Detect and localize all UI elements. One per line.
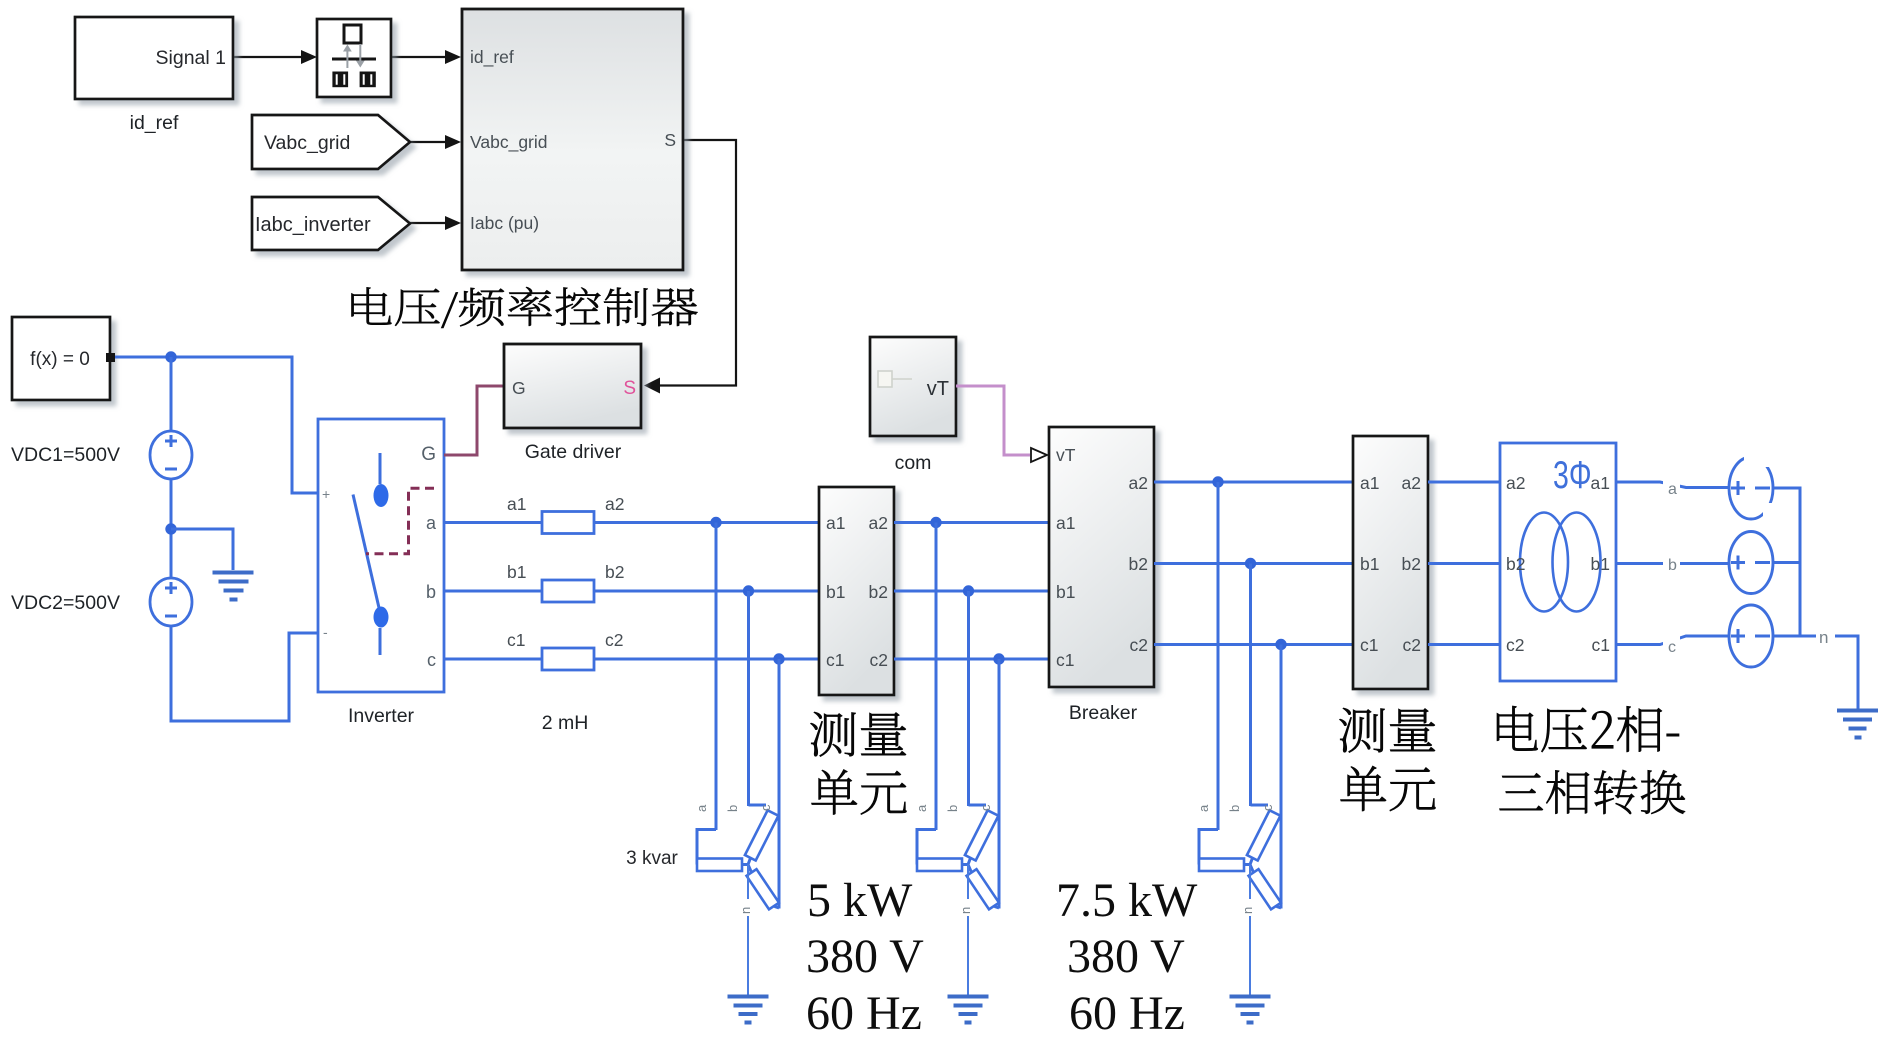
svg-text:a1: a1 <box>1056 513 1075 533</box>
junction dc bus top <box>165 351 176 362</box>
svg-text:G: G <box>512 378 526 398</box>
svg-text:Signal 1: Signal 1 <box>156 47 226 69</box>
svg-text:n: n <box>1819 628 1828 647</box>
inductor phase c <box>542 648 594 670</box>
junction load1 phase c <box>773 653 784 664</box>
svg-text:Gate driver: Gate driver <box>525 441 622 463</box>
wire VDC1 to VDC2 <box>170 479 173 578</box>
svg-text:a1: a1 <box>1591 473 1610 493</box>
svg-text:VDC1=500V: VDC1=500V <box>11 444 120 466</box>
svg-text:a2: a2 <box>1402 473 1421 493</box>
wire transformer c1 to source c <box>1616 636 1729 645</box>
source c <box>1729 605 1773 667</box>
wire to VDC1 <box>170 357 173 431</box>
svg-text:2 mH: 2 mH <box>542 712 589 734</box>
svg-text:a: a <box>426 513 437 533</box>
svg-text:vT: vT <box>1056 445 1076 465</box>
svg-text:Vabc_grid: Vabc_grid <box>470 132 548 153</box>
block inverter <box>318 419 444 692</box>
block com <box>870 337 956 436</box>
svg-text:c2: c2 <box>1130 635 1148 655</box>
svg-text:id_ref: id_ref <box>470 47 514 68</box>
tag Vabc_grid <box>252 115 410 169</box>
wire f(x) to inverter plus <box>115 357 318 493</box>
wire phase c breaker to meas2 <box>1154 643 1353 646</box>
wire rate transition to controller id_ref <box>391 56 447 58</box>
svg-text:id_ref: id_ref <box>130 112 179 134</box>
block measurement unit 1 <box>819 487 894 695</box>
ground right <box>1837 711 1878 738</box>
svg-text:b: b <box>1668 557 1677 574</box>
svg-text:c1: c1 <box>826 650 844 670</box>
wire inverter G to gate driver (mauve) <box>444 386 504 455</box>
wire transformer a1 to source a <box>1616 482 1729 488</box>
source a <box>1729 457 1773 519</box>
tag Iabc_inverter <box>252 197 410 250</box>
load2 (5 kW) icon <box>914 804 999 1023</box>
label 电压2相-三相转换 <box>1497 706 1685 814</box>
svg-text:c2: c2 <box>1403 635 1421 655</box>
inductor phase a <box>542 512 594 534</box>
svg-text:G: G <box>421 444 436 465</box>
wire VDC2 to inverter minus <box>171 626 318 721</box>
svg-text:c1: c1 <box>1360 635 1378 655</box>
label 测量单元 1 <box>810 712 906 814</box>
svg-text:Inverter: Inverter <box>348 705 415 727</box>
ground left <box>213 573 254 600</box>
svg-text:Iabc_inverter: Iabc_inverter <box>255 214 371 236</box>
inverter gate dashed bracket <box>366 488 434 554</box>
svg-text:b2: b2 <box>605 562 624 582</box>
svg-text:a2: a2 <box>1506 473 1525 493</box>
svg-text:c1: c1 <box>1056 650 1074 670</box>
wire phase a inverter to meas1 <box>444 521 819 524</box>
svg-text:com: com <box>895 452 932 474</box>
svg-text:c1: c1 <box>507 630 525 650</box>
svg-text:c2: c2 <box>1506 635 1524 655</box>
svg-text:Vabc_grid: Vabc_grid <box>264 132 350 154</box>
node n <box>1816 626 1832 644</box>
wire com vT to breaker (violet) <box>956 386 1030 455</box>
wire phase b inverter to meas1 <box>444 590 819 593</box>
label 测量单元 2 <box>1339 708 1435 811</box>
svg-text:c: c <box>427 650 436 670</box>
wire phase b breaker to meas2 <box>1154 562 1353 565</box>
load1 drop wires <box>715 523 718 831</box>
source output wires to right bus <box>1773 488 1818 636</box>
svg-text:7.5 kW: 7.5 kW <box>1056 874 1198 927</box>
svg-text:60 Hz: 60 Hz <box>806 987 922 1040</box>
wire controller S to Gate driver S <box>658 140 736 386</box>
block Breaker <box>1049 427 1154 687</box>
svg-text:Breaker: Breaker <box>1069 702 1138 724</box>
svg-text:VDC2=500V: VDC2=500V <box>11 592 120 614</box>
wires meas2 to transformer <box>1428 482 1500 645</box>
svg-text:S: S <box>623 378 636 399</box>
svg-text:c1: c1 <box>1592 635 1610 655</box>
svg-text:c: c <box>1668 639 1676 656</box>
junction dc mid <box>165 523 176 534</box>
svg-text:a1: a1 <box>507 494 526 514</box>
block measurement unit 2 <box>1353 436 1428 689</box>
svg-text:b1: b1 <box>1056 582 1075 602</box>
svg-text:3 kvar: 3 kvar <box>626 848 678 869</box>
svg-text:b2: b2 <box>1129 554 1148 574</box>
load1 (3 kvar) icon <box>694 804 779 1023</box>
svg-text:a2: a2 <box>1129 473 1148 493</box>
source b <box>1729 532 1773 594</box>
block rate transition <box>317 19 391 97</box>
label 电压/频率控制器 <box>352 287 698 328</box>
block f(x)=0 <box>12 317 110 400</box>
wire Vabc_grid tag to controller <box>410 141 447 143</box>
svg-text:b2: b2 <box>869 582 888 602</box>
transformer winding circles <box>1520 513 1568 612</box>
svg-text:380 V: 380 V <box>1067 930 1185 983</box>
inverter switch icon <box>379 453 382 484</box>
wire phase a breaker to meas2 <box>1154 481 1353 484</box>
svg-text:60 Hz: 60 Hz <box>1069 987 1185 1040</box>
svg-text:b2: b2 <box>1506 554 1525 574</box>
svg-text:380 V: 380 V <box>806 930 924 983</box>
svg-text:-: - <box>323 624 328 640</box>
load2 drop wires <box>935 523 938 831</box>
wire Iabc_inverter tag to controller <box>410 222 447 224</box>
svg-text:b1: b1 <box>1591 554 1610 574</box>
svg-text:S: S <box>664 130 676 150</box>
svg-text:a1: a1 <box>1360 473 1379 493</box>
svg-text:b1: b1 <box>826 582 845 602</box>
wire phase c inverter to meas1 <box>444 658 819 661</box>
svg-text:c2: c2 <box>605 630 623 650</box>
svg-text:a1: a1 <box>826 513 845 533</box>
svg-text:c2: c2 <box>870 650 888 670</box>
svg-text:3Φ: 3Φ <box>1553 454 1592 497</box>
block voltage/frequency controller <box>462 9 683 270</box>
svg-text:b1: b1 <box>1360 554 1379 574</box>
load3 drop wires <box>1217 482 1220 830</box>
junction load1 phase a <box>710 517 721 528</box>
wire to left ground <box>171 529 233 570</box>
svg-text:b: b <box>426 582 436 602</box>
source VDC2 <box>150 578 192 626</box>
block Signal1 (id_ref source) <box>75 17 233 99</box>
wire phase a meas1 to breaker <box>894 521 1049 524</box>
block Gate driver <box>504 344 641 428</box>
svg-text:b2: b2 <box>1402 554 1421 574</box>
wire phase b meas1 to breaker <box>894 590 1049 593</box>
svg-text:5 kW: 5 kW <box>807 874 913 927</box>
svg-text:f(x) = 0: f(x) = 0 <box>30 349 90 370</box>
svg-text:a2: a2 <box>869 513 888 533</box>
svg-text:+: + <box>322 486 330 502</box>
svg-text:a2: a2 <box>605 494 624 514</box>
svg-text:vT: vT <box>927 378 949 400</box>
svg-text:Iabc (pu): Iabc (pu) <box>470 213 539 233</box>
wire phase c meas1 to breaker <box>894 658 1049 661</box>
wire transformer b1 to source b <box>1616 562 1729 565</box>
wire Signal1 to rate transition <box>233 56 303 58</box>
svg-text:a: a <box>1668 481 1677 498</box>
junction load1 phase b <box>743 585 754 596</box>
svg-text:b1: b1 <box>507 562 526 582</box>
inductor phase b <box>542 580 594 602</box>
load3 (7.5 kW) icon <box>1196 804 1281 1023</box>
source VDC1 <box>150 431 192 479</box>
block transformer 2ph-3ph <box>1500 443 1616 681</box>
